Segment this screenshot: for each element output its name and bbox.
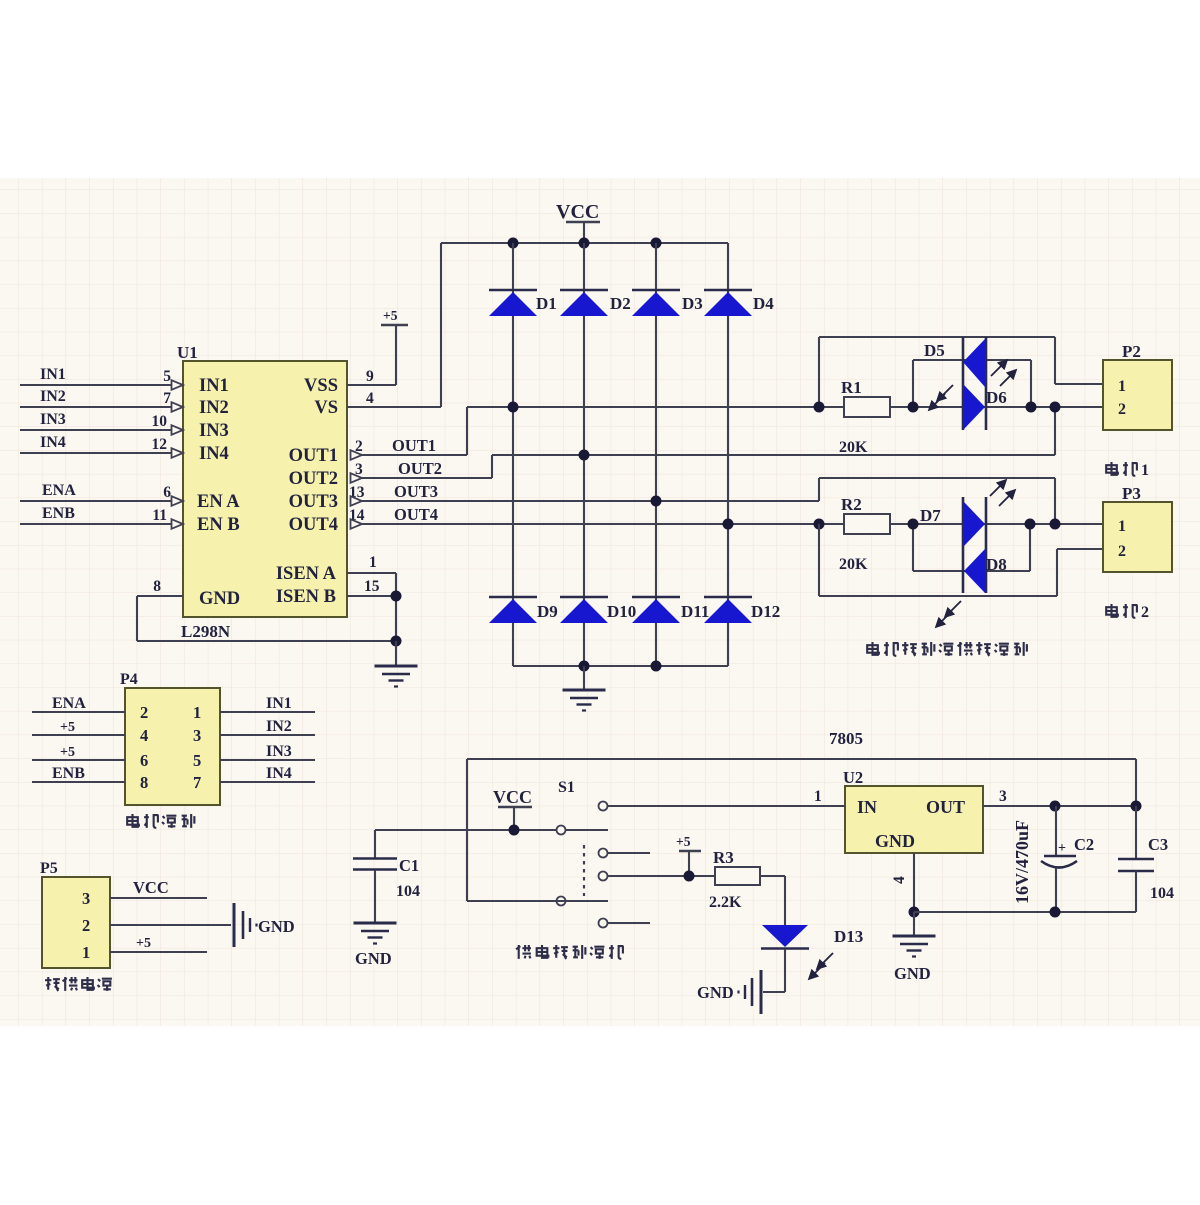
net label IN4 P4 <box>266 765 292 782</box>
svg-text:IN: IN <box>857 797 877 817</box>
svg-text:4: 4 <box>366 390 374 407</box>
svg-text:+5: +5 <box>136 936 151 951</box>
svg-text:2.2K: 2.2K <box>709 894 742 911</box>
wire IN3 input <box>20 425 183 435</box>
svg-text:OUT3: OUT3 <box>289 492 338 512</box>
svg-text:+: + <box>1058 841 1066 856</box>
node OUT1 to column1 <box>508 402 519 413</box>
svg-text:L298N: L298N <box>181 622 231 641</box>
power +5 symbol at VSS <box>381 308 408 325</box>
svg-text:ISEN A: ISEN A <box>276 564 337 584</box>
svg-text:GND: GND <box>894 964 931 983</box>
switch S1 label <box>558 779 575 796</box>
svg-text:S1: S1 <box>558 779 575 796</box>
net label IN1 <box>40 366 66 383</box>
resistor R1 <box>839 378 890 456</box>
wire OUT1 from pin2 <box>351 407 845 460</box>
LED D6 <box>964 385 1007 429</box>
label motor control <box>127 814 194 828</box>
net label IN3 P4 <box>266 743 292 760</box>
svg-text:IN3: IN3 <box>40 411 66 428</box>
resistor R3 <box>709 848 760 911</box>
wire P4 ENB <box>32 781 125 783</box>
wire VCC top rail <box>441 242 728 244</box>
net label ENA P4 <box>52 695 86 712</box>
net label OUT4 <box>394 505 438 524</box>
IC U2 7805 body <box>829 729 983 853</box>
LED D8 <box>964 549 1007 593</box>
svg-text:P4: P4 <box>120 671 138 688</box>
svg-text:GND: GND <box>258 917 295 936</box>
diode D3 <box>632 290 703 316</box>
svg-text:IN3: IN3 <box>199 421 229 441</box>
svg-text:D9: D9 <box>537 602 558 621</box>
wire ISEN A pin1 <box>347 572 396 574</box>
LED D5 <box>924 339 985 387</box>
ground symbol U2 <box>893 912 936 983</box>
wire S1 common to 7805 output <box>467 759 1136 901</box>
wire VSS pin9 to +5 <box>347 326 396 385</box>
label system power <box>45 977 112 991</box>
power VCC symbol at switch <box>493 787 532 830</box>
svg-text:5: 5 <box>163 368 171 385</box>
connector P4 <box>120 671 220 805</box>
LED D13 emission arrows <box>810 953 833 978</box>
wire ground rail to C3 <box>914 911 1136 913</box>
svg-text:11: 11 <box>152 507 167 524</box>
svg-text:3: 3 <box>999 788 1007 805</box>
diode D9 <box>489 597 558 623</box>
node D8 loop junctions <box>908 519 1036 530</box>
svg-text:ENA: ENA <box>52 695 86 712</box>
wire U2 OUT <box>983 805 1136 807</box>
svg-text:2: 2 <box>1141 604 1149 621</box>
node P3 pin1 junction <box>1050 519 1061 530</box>
svg-text:6: 6 <box>163 484 171 501</box>
diode D4 <box>704 290 774 316</box>
node VCC rail junctions <box>508 238 662 249</box>
wire P5 +5 <box>110 951 207 953</box>
LED D7 emission arrows <box>990 481 1014 506</box>
wire D8 branch loop <box>913 524 1030 571</box>
svg-text:IN4: IN4 <box>199 444 229 464</box>
svg-text:7: 7 <box>163 390 171 407</box>
svg-text:1: 1 <box>814 788 822 805</box>
wire VCC row to switch <box>375 829 608 831</box>
label motor1 <box>1106 462 1149 479</box>
svg-text:ISEN B: ISEN B <box>276 587 336 607</box>
net label IN1 P4 <box>266 695 292 712</box>
node C2 ground junction <box>1050 907 1061 918</box>
net label IN3 <box>40 411 66 428</box>
U2 pin3 number <box>999 788 1007 805</box>
svg-text:1: 1 <box>369 554 377 571</box>
svg-text:ENA: ENA <box>42 482 76 499</box>
svg-text:EN A: EN A <box>197 492 240 512</box>
svg-text:1: 1 <box>1118 378 1126 395</box>
node U2 OUT junctions <box>1050 801 1142 812</box>
wire R2 to LEDs and P3 pin1 <box>890 523 1103 525</box>
svg-text:OUT4: OUT4 <box>394 505 438 524</box>
svg-text:D12: D12 <box>751 602 780 621</box>
svg-text:VCC: VCC <box>493 787 532 807</box>
svg-text:IN1: IN1 <box>40 366 66 383</box>
svg-text:GND: GND <box>875 831 915 851</box>
svg-text:R3: R3 <box>713 848 734 867</box>
wire P4 IN1 <box>220 711 315 713</box>
wire GND pin8 loop <box>137 596 396 641</box>
svg-text:D1: D1 <box>536 294 557 313</box>
svg-text:C2: C2 <box>1074 835 1094 854</box>
label motor direction indicator <box>867 642 1027 656</box>
U1 left pin labels <box>197 376 240 609</box>
LED D13 <box>761 925 863 949</box>
svg-text:1: 1 <box>82 943 90 962</box>
LED D6 emission arrows <box>991 361 1015 386</box>
net label OUT2 <box>398 459 442 478</box>
svg-text:OUT4: OUT4 <box>289 515 338 535</box>
svg-text:8: 8 <box>140 773 148 792</box>
wire diode column 1 <box>512 243 514 666</box>
svg-text:D10: D10 <box>607 602 636 621</box>
node +5 R3 junction <box>684 871 695 882</box>
svg-text:8: 8 <box>153 578 161 595</box>
svg-text:104: 104 <box>1150 885 1174 902</box>
net label IN2 P4 <box>266 718 292 735</box>
svg-text:IN4: IN4 <box>266 765 292 782</box>
svg-text:2: 2 <box>140 703 148 722</box>
wire OUT3 from pin13 <box>351 478 1056 524</box>
svg-text:P3: P3 <box>1122 484 1141 503</box>
LED D7 <box>920 502 985 546</box>
svg-text:GND: GND <box>199 589 240 609</box>
ground symbol P5 <box>234 903 295 947</box>
power VCC symbol top <box>556 201 600 243</box>
svg-text:5: 5 <box>193 751 201 770</box>
svg-text:OUT: OUT <box>926 797 965 817</box>
wire ENA input <box>20 496 183 506</box>
net label IN4 <box>40 434 66 451</box>
svg-text:U2: U2 <box>843 768 863 787</box>
svg-text:7: 7 <box>193 773 201 792</box>
wire IN2 input <box>20 402 183 412</box>
wire S1 row4 stub <box>608 922 650 924</box>
svg-text:4: 4 <box>140 726 148 745</box>
resistor R2 <box>839 495 890 573</box>
node ISEN junction <box>391 591 402 602</box>
wire ISEN B pin15 <box>347 573 396 642</box>
svg-text:+5: +5 <box>60 745 75 760</box>
node R2 input junction <box>814 519 825 530</box>
LED D6 cathode bar <box>985 337 988 430</box>
net label +5 P5 <box>136 936 151 951</box>
wire ENB input <box>20 519 183 529</box>
wire P4 +5 b <box>32 759 125 761</box>
wire switch to U2 IN <box>608 805 845 807</box>
switch S1 contacts <box>557 802 608 928</box>
wire diode bottom rail <box>513 665 728 667</box>
node D5 loop junctions <box>908 402 1061 413</box>
svg-text:9: 9 <box>366 368 374 385</box>
svg-text:GND: GND <box>697 983 734 1002</box>
wire S1 to R3 <box>608 875 715 877</box>
svg-text:D13: D13 <box>834 927 863 946</box>
LED D5 cathode bar <box>962 337 965 430</box>
node U2 ground junction <box>909 907 920 918</box>
svg-text:15: 15 <box>364 578 380 595</box>
svg-text:ENB: ENB <box>52 765 85 782</box>
svg-text:12: 12 <box>152 436 168 453</box>
wire P4 ENA <box>32 711 125 713</box>
node OUT3 to column3 <box>651 496 662 507</box>
wire P4 IN4 <box>220 781 315 783</box>
svg-text:+5: +5 <box>383 308 398 323</box>
power +5 symbol at R3 <box>676 834 701 876</box>
net label +5 b <box>60 745 75 760</box>
wire IN4 input <box>20 448 183 458</box>
svg-text:GND: GND <box>355 949 392 968</box>
wire OUT1 loop to P2 pin1 <box>819 337 1103 407</box>
svg-text:R2: R2 <box>841 495 862 514</box>
svg-text:16V/470uF: 16V/470uF <box>1012 820 1032 904</box>
svg-text:OUT1: OUT1 <box>392 436 436 455</box>
wire VS pin4 to VCC rail <box>347 243 441 407</box>
U1 right pin labels <box>276 376 338 607</box>
wire OUT4 from pin14 <box>351 519 845 529</box>
U2 pin1 number <box>814 788 822 805</box>
svg-text:C3: C3 <box>1148 835 1168 854</box>
svg-text:1: 1 <box>1118 518 1126 535</box>
wire diode column 3 <box>655 243 657 666</box>
net label ENA <box>42 482 76 499</box>
svg-text:OUT2: OUT2 <box>398 459 442 478</box>
svg-text:10: 10 <box>152 413 168 430</box>
svg-text:VS: VS <box>314 398 338 418</box>
svg-text:VCC: VCC <box>556 201 599 223</box>
svg-text:EN B: EN B <box>197 515 240 535</box>
svg-text:IN1: IN1 <box>266 695 292 712</box>
svg-text:VCC: VCC <box>133 878 169 897</box>
U2 pin4 number <box>891 876 908 884</box>
svg-text:D6: D6 <box>986 388 1007 407</box>
svg-text:P5: P5 <box>40 860 58 877</box>
svg-text:C1: C1 <box>399 856 419 875</box>
LED D7 cathode bar <box>962 497 965 593</box>
wire OUT2 from pin3 <box>351 407 1056 483</box>
svg-text:IN2: IN2 <box>199 398 229 418</box>
U1 pin numbers <box>152 368 380 595</box>
wire U2 GND down <box>913 853 915 912</box>
svg-text:R1: R1 <box>841 378 862 397</box>
svg-text:4: 4 <box>891 876 908 884</box>
svg-text:D3: D3 <box>682 294 703 313</box>
capacitor C2 <box>1041 806 1094 912</box>
wire P5 GND <box>110 924 231 926</box>
svg-text:IN4: IN4 <box>40 434 66 451</box>
net label VCC P5 <box>133 878 169 897</box>
connector P3 <box>1103 484 1172 572</box>
wire IN1 input <box>20 380 183 390</box>
capacitor C3 <box>1118 806 1174 912</box>
node OUT2 to column2 <box>579 450 590 461</box>
LED D8 cathode bar <box>985 497 988 593</box>
svg-text:2: 2 <box>1118 543 1126 560</box>
svg-text:3: 3 <box>193 726 201 745</box>
LED D5 emission arrows <box>930 385 953 409</box>
diode D1 <box>489 290 557 316</box>
wire P4 IN3 <box>220 759 315 761</box>
svg-text:20K: 20K <box>839 439 868 456</box>
svg-text:D4: D4 <box>753 294 774 313</box>
svg-text:IN2: IN2 <box>40 388 66 405</box>
svg-text:D11: D11 <box>681 602 709 621</box>
wire D13 to ground <box>763 949 785 992</box>
svg-text:IN3: IN3 <box>266 743 292 760</box>
wire S1 row2 stub <box>608 852 650 854</box>
diode D12 <box>704 597 780 623</box>
diode D10 <box>560 597 636 623</box>
capacitor C1 <box>353 830 420 923</box>
svg-text:2: 2 <box>1118 401 1126 418</box>
wire R3 to D13 <box>760 876 785 925</box>
svg-text:P2: P2 <box>1122 342 1141 361</box>
svg-text:OUT1: OUT1 <box>289 446 338 466</box>
svg-text:1: 1 <box>193 703 201 722</box>
svg-text:+5: +5 <box>676 834 691 849</box>
ground symbol C1 <box>354 923 397 968</box>
diode D11 <box>632 597 709 623</box>
svg-text:OUT3: OUT3 <box>394 482 438 501</box>
svg-text:3: 3 <box>82 889 90 908</box>
LED D8 emission arrows <box>937 601 961 626</box>
svg-text:OUT2: OUT2 <box>289 469 338 489</box>
svg-text:IN1: IN1 <box>199 376 229 396</box>
wire OUT4 loop to P3 pin2 <box>819 524 1103 596</box>
net label OUT1 <box>392 436 436 455</box>
svg-text:D7: D7 <box>920 506 941 525</box>
net label IN2 <box>40 388 66 405</box>
label power select switch <box>516 945 623 959</box>
label motor2 <box>1106 604 1149 621</box>
net label ENB P4 <box>52 765 85 782</box>
node R1 input junction <box>814 402 825 413</box>
node GND junction <box>391 636 402 647</box>
svg-text:D2: D2 <box>610 294 631 313</box>
wire R1 to LEDs and P2 pin2 <box>890 406 1103 408</box>
svg-text:104: 104 <box>396 883 420 900</box>
svg-text:ENB: ENB <box>42 505 75 522</box>
diode D2 <box>560 290 631 316</box>
node VCC row junction <box>509 825 520 836</box>
svg-text:+5: +5 <box>60 720 75 735</box>
svg-text:6: 6 <box>140 751 148 770</box>
IC U1 L298N body <box>177 343 347 641</box>
connector P5 <box>40 860 110 968</box>
ground symbol U1 <box>375 641 418 687</box>
wire diode column 2 <box>583 243 585 666</box>
net label +5 a <box>60 720 75 735</box>
svg-text:D8: D8 <box>986 555 1007 574</box>
wire P4 +5 a <box>32 734 125 736</box>
wire D5 branch loop <box>913 360 1031 407</box>
ground symbol D13 <box>697 970 761 1014</box>
label C2 value <box>1012 820 1032 904</box>
svg-text:U1: U1 <box>177 343 198 362</box>
node OUT4 to column4 <box>723 519 734 530</box>
connector P2 <box>1103 342 1172 430</box>
svg-text:20K: 20K <box>839 556 868 573</box>
svg-text:2: 2 <box>82 916 90 935</box>
node bottom rail junctions <box>579 661 662 672</box>
svg-text:7805: 7805 <box>829 729 863 748</box>
ground symbol diode matrix <box>563 666 606 711</box>
svg-text:1: 1 <box>1141 462 1149 479</box>
wire P4 IN2 <box>220 734 315 736</box>
switch S1 dashed link <box>583 845 585 896</box>
svg-text:IN2: IN2 <box>266 718 292 735</box>
wire diode column 4 <box>727 243 729 666</box>
net label OUT3 <box>394 482 438 501</box>
wire P5 VCC <box>110 897 207 899</box>
net label ENB <box>42 505 75 522</box>
svg-text:D5: D5 <box>924 341 945 360</box>
svg-text:VSS: VSS <box>304 376 338 396</box>
